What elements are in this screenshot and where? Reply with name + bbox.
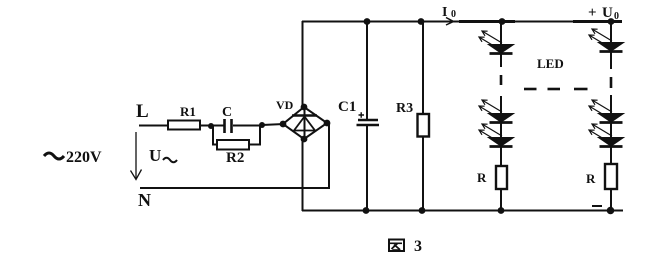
wire string2 top — [610, 21, 612, 43]
resistor R1 — [168, 121, 200, 130]
wire N line — [140, 187, 330, 189]
arrow D5 light b — [589, 106, 609, 118]
node string2 bottom rail — [607, 207, 615, 215]
arrow D1 light b — [479, 37, 499, 49]
wire R2 branch right riser — [248, 125, 260, 145]
wire C1 bottom — [366, 126, 368, 211]
node R1/C/R2 junction — [208, 123, 214, 129]
capacitor C1 — [358, 119, 378, 122]
arrow D5 light a — [592, 100, 612, 112]
node C/R2 output junction — [259, 122, 265, 128]
wire R3 bottom — [422, 137, 424, 212]
svg-text:U: U — [149, 146, 161, 165]
node bridge bottom vertex — [301, 136, 308, 143]
svg-text:LED: LED — [537, 56, 564, 71]
wire top rail — [302, 21, 622, 23]
node string1 top rail — [499, 18, 506, 25]
bridge rectifier VD diamond — [283, 107, 327, 139]
wire C1 top — [366, 21, 368, 119]
arrow D6 light a — [592, 124, 612, 136]
LED D4 — [600, 43, 622, 51]
svg-text:+: + — [588, 5, 597, 21]
LED D2 — [490, 114, 512, 122]
wire node to bridge left vertex — [262, 124, 284, 125]
wire C to node — [233, 125, 263, 127]
resistor R3 — [418, 114, 430, 137]
node string1 bottom rail — [498, 207, 505, 214]
svg-text:R: R — [586, 171, 596, 186]
node bridge top vertex — [301, 104, 308, 111]
node bridge right vertex — [324, 120, 331, 127]
node C1 top rail — [364, 18, 371, 25]
arrow D2 light a — [482, 100, 502, 112]
svg-text:0: 0 — [451, 9, 456, 20]
wire string2 bottom — [610, 189, 612, 211]
wire R2 branch left drop — [211, 126, 218, 145]
wire string1 bottom — [500, 189, 502, 211]
wire bridge top to top rail — [302, 21, 304, 107]
svg-text:C1: C1 — [338, 99, 356, 115]
node string2 top rail — [608, 18, 615, 25]
label C1 plus — [359, 112, 365, 118]
arrow D2 light b — [479, 106, 499, 118]
wire R3 top — [422, 21, 424, 114]
svg-text:L: L — [136, 101, 149, 122]
svg-text:N: N — [138, 190, 151, 210]
dashed line between strings — [524, 88, 537, 91]
resistor R string2 — [605, 164, 617, 189]
arrow Io chevron — [446, 18, 454, 26]
resistor R2 — [217, 140, 249, 150]
wire string1 top — [500, 21, 502, 45]
bridge inner diode — [304, 110, 306, 137]
LED D6 — [600, 138, 622, 146]
wire R1 to C — [200, 125, 224, 127]
wire string1 dash — [500, 75, 503, 85]
svg-text:C: C — [222, 105, 232, 120]
svg-text:VD: VD — [276, 98, 294, 112]
LED D1 — [490, 45, 512, 53]
arrow D3 light b — [479, 130, 499, 142]
arrow D4 light b — [589, 35, 609, 47]
label minus bottom right — [592, 205, 602, 207]
arrow D3 light a — [482, 124, 502, 136]
svg-text:0: 0 — [614, 11, 619, 22]
wire L terminal to R1 — [139, 125, 168, 127]
svg-text:R3: R3 — [396, 101, 413, 116]
node R3 bottom rail — [419, 207, 426, 214]
arrow U direction — [135, 132, 137, 179]
arrow D1 light a — [482, 31, 502, 43]
svg-text:3: 3 — [414, 238, 422, 255]
node C1 bottom rail — [363, 207, 370, 214]
arrow D6 light b — [589, 130, 609, 142]
LED D5 — [600, 114, 622, 122]
wire N riser to bridge right vertex — [328, 123, 330, 189]
caption figure 3 — [389, 240, 404, 252]
capacitor C — [223, 119, 226, 133]
LED D3 — [490, 138, 512, 146]
AC source label 220V — [44, 153, 64, 159]
wire bridge bottom to bottom rail — [302, 139, 304, 211]
svg-text:R: R — [477, 170, 487, 185]
resistor R string1 — [496, 166, 507, 189]
svg-text:R1: R1 — [180, 104, 196, 119]
svg-text:220V: 220V — [66, 149, 102, 166]
node R3 top rail — [418, 18, 425, 25]
node bridge left vertex — [280, 121, 287, 128]
arrow D4 light a — [592, 29, 612, 41]
svg-text:R2: R2 — [226, 150, 244, 166]
wire string2 dash — [610, 77, 613, 88]
wire bottom rail — [302, 210, 623, 212]
